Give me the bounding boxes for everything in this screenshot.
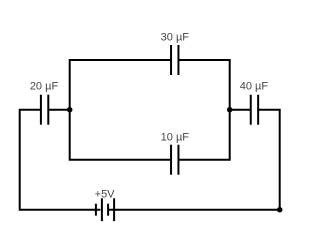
- wire: right node to 40uF: [230, 109, 251, 111]
- battery +5V: [96, 198, 114, 221]
- node: bottom-right junction: [277, 207, 283, 213]
- svg-text:30 µF: 30 µF: [161, 31, 190, 43]
- wire: inner bottom-left segment to 10uF: [70, 110, 171, 160]
- wire: 20uF right lead to left node: [48, 109, 69, 111]
- capacitor 20 uF: [41, 95, 48, 125]
- svg-text:10 µF: 10 µF: [161, 131, 190, 143]
- svg-text:40 µF: 40 µF: [240, 81, 269, 93]
- capacitor 30 uF: [171, 45, 178, 75]
- wire: inner top-left segment to 30uF: [70, 60, 171, 110]
- capacitor 10 uF: [171, 145, 178, 175]
- wire: inner bottom-right segment from 10uF: [178, 110, 229, 160]
- wire: 40uF to outer right down to bottom node: [258, 110, 280, 210]
- node: right junction: [227, 107, 233, 113]
- wire: battery right lead to bottom-right node: [108, 209, 279, 211]
- capacitor 40 uF: [251, 95, 258, 125]
- wire: left lead to 20uF: [20, 110, 101, 210]
- svg-text:20 µF: 20 µF: [30, 81, 59, 93]
- wire: inner top-right segment from 30uF: [178, 60, 229, 110]
- node: left junction: [67, 107, 73, 113]
- svg-text:+5V: +5V: [95, 188, 116, 200]
